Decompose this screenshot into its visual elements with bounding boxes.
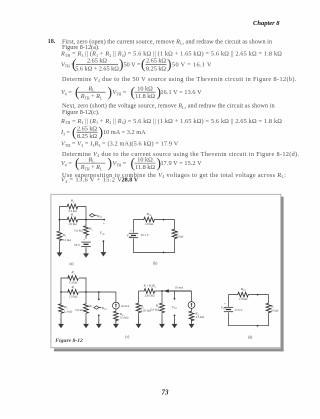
svg-text:10 kΩ: 10 kΩ — [137, 156, 153, 163]
svg-text:3.3 kΩ: 3.3 kΩ — [120, 316, 129, 320]
svg-text:I3​ =: I3​ = — [60, 129, 70, 136]
circuit c2: ground stub — [174, 319, 176, 324]
svg-text:1.0 kΩ: 1.0 kΩ — [69, 295, 78, 299]
svg-text:28.8 V: 28.8 V — [122, 177, 139, 184]
circuit c: ground under stub — [98, 319, 100, 324]
circuit c2: resistor R4 series — [191, 308, 193, 311]
circuit c2: VTH terminal stub — [174, 291, 176, 299]
figure box frame — [51, 194, 281, 347]
circuit c: ground under R3 — [85, 319, 87, 324]
circuit a: lower output terminal and ground — [103, 240, 105, 242]
svg-text:): ) — [108, 155, 113, 170]
circuit c2: top wire — [139, 290, 145, 292]
svg-text:1.8 kΩ: 1.8 kΩ — [145, 222, 154, 226]
svg-text:16.1 V = 13.6 V: 16.1 V = 13.6 V — [161, 89, 203, 96]
svg-text:5.6 kΩ: 5.6 kΩ — [74, 229, 83, 233]
svg-text:16.1 V: 16.1 V — [141, 233, 150, 237]
svg-text:3.3 kΩ: 3.3 kΩ — [64, 309, 73, 313]
svg-text:2.65 kΩ: 2.65 kΩ — [146, 58, 166, 65]
svg-text:RTH​ = R3​ || (R1​ + R2​ || R4: RTH​ = R3​ || (R1​ + R2​ || R4​) = 5.6 k… — [60, 118, 282, 125]
circuit d: terminal dots — [257, 294, 259, 296]
svg-text:+: + — [103, 221, 105, 225]
circuit c: wire top branch — [61, 278, 69, 292]
svg-text:2.65 kΩ: 2.65 kΩ — [144, 294, 155, 298]
circuit c2: ground middle — [161, 319, 163, 324]
svg-text:8.25 kΩ: 8.25 kΩ — [146, 65, 166, 72]
circuit c: ground under current source — [115, 320, 117, 324]
circuit a: resistor R2 — [59, 220, 61, 231]
svg-text:2.65 kΩ: 2.65 kΩ — [87, 58, 107, 65]
svg-text:5.6 kΩ: 5.6 kΩ — [150, 308, 159, 312]
svg-text:11.8 kΩ: 11.8 kΩ — [135, 164, 155, 171]
svg-text:3.3 kΩ: 3.3 kΩ — [195, 315, 204, 319]
svg-text:3.3 kΩ: 3.3 kΩ — [69, 281, 78, 285]
circuit c2: ground right — [191, 320, 193, 324]
svg-text:+: + — [130, 229, 132, 233]
circuit c: node dots — [60, 291, 62, 293]
circuit c: resistor R4 series — [115, 309, 117, 312]
svg-text:1.0 kΩ: 1.0 kΩ — [68, 222, 77, 226]
circuit b: loop wires — [134, 220, 145, 233]
figure box shadow — [281, 197, 284, 352]
svg-text:VTH​ = V3​ = I3​R3​ = (3.2 mA): VTH​ = V3​ = I3​R3​ = (3.2 mA)(5.6 kΩ) =… — [61, 141, 179, 148]
circuit c: wire main line — [61, 291, 69, 293]
circuit c: output stub terminals — [98, 292, 100, 299]
svg-text:V4​ = 13.6 V + 15.2 V =: V4​ = 13.6 V + 15.2 V = — [61, 177, 128, 184]
svg-text:(: ( — [75, 155, 80, 170]
circuit a: wire main line — [60, 219, 68, 221]
svg-text:V4​ =: V4​ = — [61, 160, 72, 167]
svg-text:10 mA = 3.2 mA: 10 mA = 3.2 mA — [103, 129, 146, 136]
svg-text:Chapter 8: Chapter 8 — [253, 20, 280, 27]
circuit c2: current source — [191, 291, 193, 302]
circuit d: resistor RL — [266, 303, 271, 312]
circuit c2: ground left — [138, 319, 140, 324]
circuit b: resistor RL — [172, 229, 177, 238]
svg-text:50 V: 50 V — [74, 243, 81, 247]
circuit b: terminal dots — [163, 219, 165, 221]
svg-text:10 mA: 10 mA — [121, 304, 130, 308]
circuit a: RTH looking arrow — [89, 214, 94, 217]
svg-text:50 V =: 50 V = — [124, 61, 142, 68]
circuit d: resistor RTH — [238, 292, 249, 297]
circuit c: RTH looking arrow — [94, 306, 99, 309]
svg-text:): ) — [108, 84, 113, 99]
svg-text:73: 73 — [162, 388, 170, 396]
circuit a: ground under R2 — [59, 251, 61, 253]
svg-text:10 kΩ: 10 kΩ — [271, 308, 279, 312]
svg-text:5.6 kΩ: 5.6 kΩ — [75, 308, 84, 312]
circuit c2: series resistor R1+R2||R4 — [144, 289, 155, 294]
circuit a: wire top branch — [60, 207, 68, 220]
svg-text:V4​ =: V4​ = — [61, 89, 72, 96]
circuit c: resistor R4 — [68, 276, 79, 281]
svg-text:11.8 kΩ: 11.8 kΩ — [135, 93, 155, 100]
circuit a: node L — [59, 219, 61, 221]
circuit a: resistor R3 — [85, 220, 87, 226]
svg-text:10 mA: 10 mA — [175, 286, 184, 290]
circuit d: loop wires — [229, 295, 239, 307]
svg-text:): ) — [167, 57, 172, 72]
circuit c2: resistor R3 — [161, 290, 163, 292]
circuit c: resistor R1 — [68, 290, 79, 295]
circuit c: ground under R2 — [60, 319, 62, 324]
circuit c2: current direction arrow 10 mA — [164, 289, 169, 293]
circuit a: output terminal node — [103, 219, 105, 221]
svg-text:Determine V4​ due to the 50 V: Determine V4​ due to the 50 V source usi… — [62, 76, 297, 83]
svg-text:17.9 V: 17.9 V — [234, 308, 243, 312]
circuit a: resistor R1 — [67, 217, 78, 222]
svg-text:+: + — [224, 302, 226, 306]
svg-text:10 kΩ: 10 kΩ — [176, 234, 184, 238]
svg-text:8.25 kΩ: 8.25 kΩ — [77, 133, 97, 140]
svg-text:Figure 8-12: Figure 8-12 — [55, 338, 83, 344]
svg-text:RTH​ + RL​: RTH​ + RL​ — [80, 164, 103, 171]
svg-text:50 V = 16.1 V: 50 V = 16.1 V — [172, 61, 212, 68]
svg-text:(: ( — [75, 84, 80, 99]
svg-text:5.6 kΩ + 2.65 kΩ: 5.6 kΩ + 2.65 kΩ — [75, 65, 119, 72]
circuit c: resistor R2 — [60, 292, 62, 304]
svg-text:17.9 V = 15.2 V: 17.9 V = 15.2 V — [161, 160, 203, 167]
circuit c: current source 10mA — [115, 292, 117, 302]
svg-text:3.3 kΩ: 3.3 kΩ — [62, 238, 71, 242]
circuit c: resistor R3 — [85, 292, 87, 304]
svg-text:+: + — [83, 238, 85, 242]
circuit b: resistor RTH — [144, 217, 155, 222]
circuit a: ground under battery — [85, 248, 87, 253]
svg-text:1.8 kΩ: 1.8 kΩ — [239, 297, 248, 301]
circuit a: node M — [85, 219, 87, 221]
svg-text:Figure 8-12(c).: Figure 8-12(c). — [62, 109, 100, 116]
svg-text:10 kΩ: 10 kΩ — [137, 85, 153, 92]
svg-text:RTH​ + RL​: RTH​ + RL​ — [80, 93, 103, 100]
svg-text:2.65 kΩ: 2.65 kΩ — [77, 125, 97, 132]
circuit a: resistor R4 — [67, 204, 78, 209]
circuit c2: resistor R2||R4 vertical — [138, 291, 140, 304]
svg-text:18.: 18. — [48, 38, 56, 45]
